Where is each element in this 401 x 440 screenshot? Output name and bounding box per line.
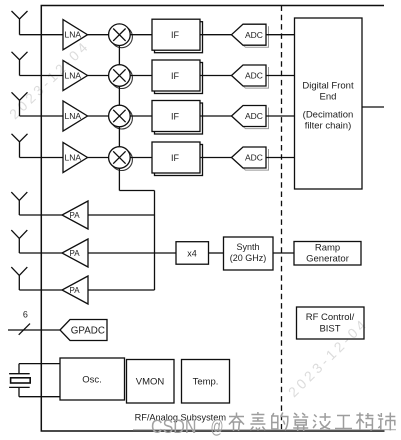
antenna RX2 [12,52,28,76]
LNA A1 [63,20,88,50]
svg-text:VMON: VMON [136,377,165,388]
svg-text:Ramp: Ramp [315,243,340,254]
Ramp Generator block [294,242,361,266]
wire PA3 to trunk [88,289,155,291]
svg-text:GPADC: GPADC [71,326,105,337]
antenna RX1 [12,11,28,35]
CSDN watermark pseudo CJK glyphs [229,412,395,431]
wire ADC3 to DFE [266,115,295,117]
antenna RX3 [12,92,28,116]
svg-text:IF: IF [171,153,180,163]
LO trunk vertical [154,191,156,291]
RF Control / BIST block [297,307,365,339]
PA P1 [62,201,88,229]
svg-text:IF: IF [171,111,180,121]
svg-text:End: End [320,92,337,103]
wire RX2 antenna to LNA [20,75,64,77]
wire PA2 to trunk [88,252,155,254]
svg-text:IF: IF [171,71,180,81]
svg-text:ADC: ADC [245,30,263,40]
wire ADC1 to DFE [266,34,295,36]
crystal top wire [19,363,60,365]
mixer M1 [109,24,133,48]
wire TX1 antenna to PA [19,214,62,216]
LNA A3 [63,101,88,131]
svg-text:Synth: Synth [236,242,259,252]
wire external to GPADC [8,329,60,331]
svg-text:filter chain): filter chain) [305,121,351,132]
LNA A2 [63,60,88,90]
DFE output stub [362,106,384,108]
IF block 2 [152,60,203,94]
mixer M3 [109,105,133,129]
crystal stubs [18,364,20,397]
wire ADC4 to DFE [266,157,295,159]
crystal body [11,378,31,383]
crystal bottom wire [19,396,60,398]
mixer M2 [109,65,133,89]
svg-text:IF: IF [171,30,180,40]
svg-text:PA: PA [70,286,81,295]
CSDN watermark underline [133,429,396,431]
wire TX3 antenna to PA [19,289,62,291]
wire Synth to Ramp Generator [273,252,294,254]
wire IF3 to ADC3 [200,115,232,117]
svg-text:6: 6 [23,309,28,319]
ADC A/D converter 1 [232,24,269,47]
GPADC block [60,320,107,341]
ADC A/D converter 4 [232,147,269,170]
Osc block [60,358,125,400]
wire PA1 to trunk [88,214,155,216]
svg-text:RF Control/: RF Control/ [306,312,355,323]
PA P2 [62,239,88,267]
ADC A/D converter 2 [232,65,269,88]
antenna TX2 [11,230,27,253]
IF block 3 [152,101,203,135]
LO link mixer3-mixer4 [118,127,120,147]
LO link mixer2-mixer3 [118,86,120,105]
LNA A4 [63,142,88,172]
wire ADC2 to DFE [266,75,295,77]
Synth block [224,237,274,270]
PA P3 [62,276,88,304]
svg-text:LNA: LNA [65,111,82,121]
svg-text:Generator: Generator [306,254,349,265]
Temp block [182,360,230,404]
wire LNA3 to mixer3 [88,115,109,117]
LO corner horizontal [119,190,154,192]
LO link mixer1-mixer2 [118,46,120,65]
IF block 4 [152,142,203,176]
wire mixer4 to IF4 [130,157,152,159]
wire LNA1 to mixer1 [88,34,109,36]
wire mixer3 to IF3 [130,115,152,117]
svg-text:ADC: ADC [245,153,263,163]
IF block 1 [152,19,203,53]
svg-text:PA: PA [70,249,81,258]
svg-text:LNA: LNA [65,30,82,40]
wire mixer1 to IF1 [130,34,152,36]
dashed partition line [281,6,283,432]
wire RX3 antenna to LNA [20,115,64,117]
bus slash [19,324,30,335]
antenna TX1 [11,192,27,215]
wire RX4 antenna to LNA [20,157,64,159]
svg-text:(Decimation: (Decimation [303,110,354,121]
wire IF2 to ADC2 [200,75,232,77]
Digital Front End block [295,18,363,189]
wire LNA2 to mixer2 [88,75,109,77]
svg-text:Digital Front: Digital Front [302,81,354,92]
LO line mixer4 down [118,168,120,190]
svg-text:BIST: BIST [319,324,340,335]
ADC A/D converter 3 [232,106,269,129]
svg-text:Osc.: Osc. [82,375,102,386]
svg-text:(20 GHz): (20 GHz) [230,253,267,263]
VMON block [127,360,175,404]
wire RX1 antenna to LNA [20,34,64,36]
wire x4 to Synth [209,252,224,254]
svg-text:LNA: LNA [65,71,82,81]
svg-text:ADC: ADC [245,71,263,81]
wire LNA4 to mixer4 [88,157,109,159]
svg-text:Temp.: Temp. [193,377,219,388]
x4 multiplier block [176,242,209,265]
antenna RX4 [12,134,28,158]
wire trunk to x4 [155,252,177,254]
wire IF4 to ADC4 [200,157,232,159]
svg-text:PA: PA [70,211,81,220]
mixer M4 [109,147,133,171]
svg-text:ADC: ADC [245,111,263,121]
svg-text:LNA: LNA [65,153,82,163]
wire IF1 to ADC1 [200,34,232,36]
wire TX2 antenna to PA [19,252,62,254]
crystal plates [9,374,30,388]
wire mixer2 to IF2 [130,75,152,77]
svg-text:@: @ [211,417,224,438]
antenna TX3 [11,267,27,290]
svg-text:x4: x4 [187,248,197,258]
svg-text:CSDN: CSDN [151,417,197,438]
